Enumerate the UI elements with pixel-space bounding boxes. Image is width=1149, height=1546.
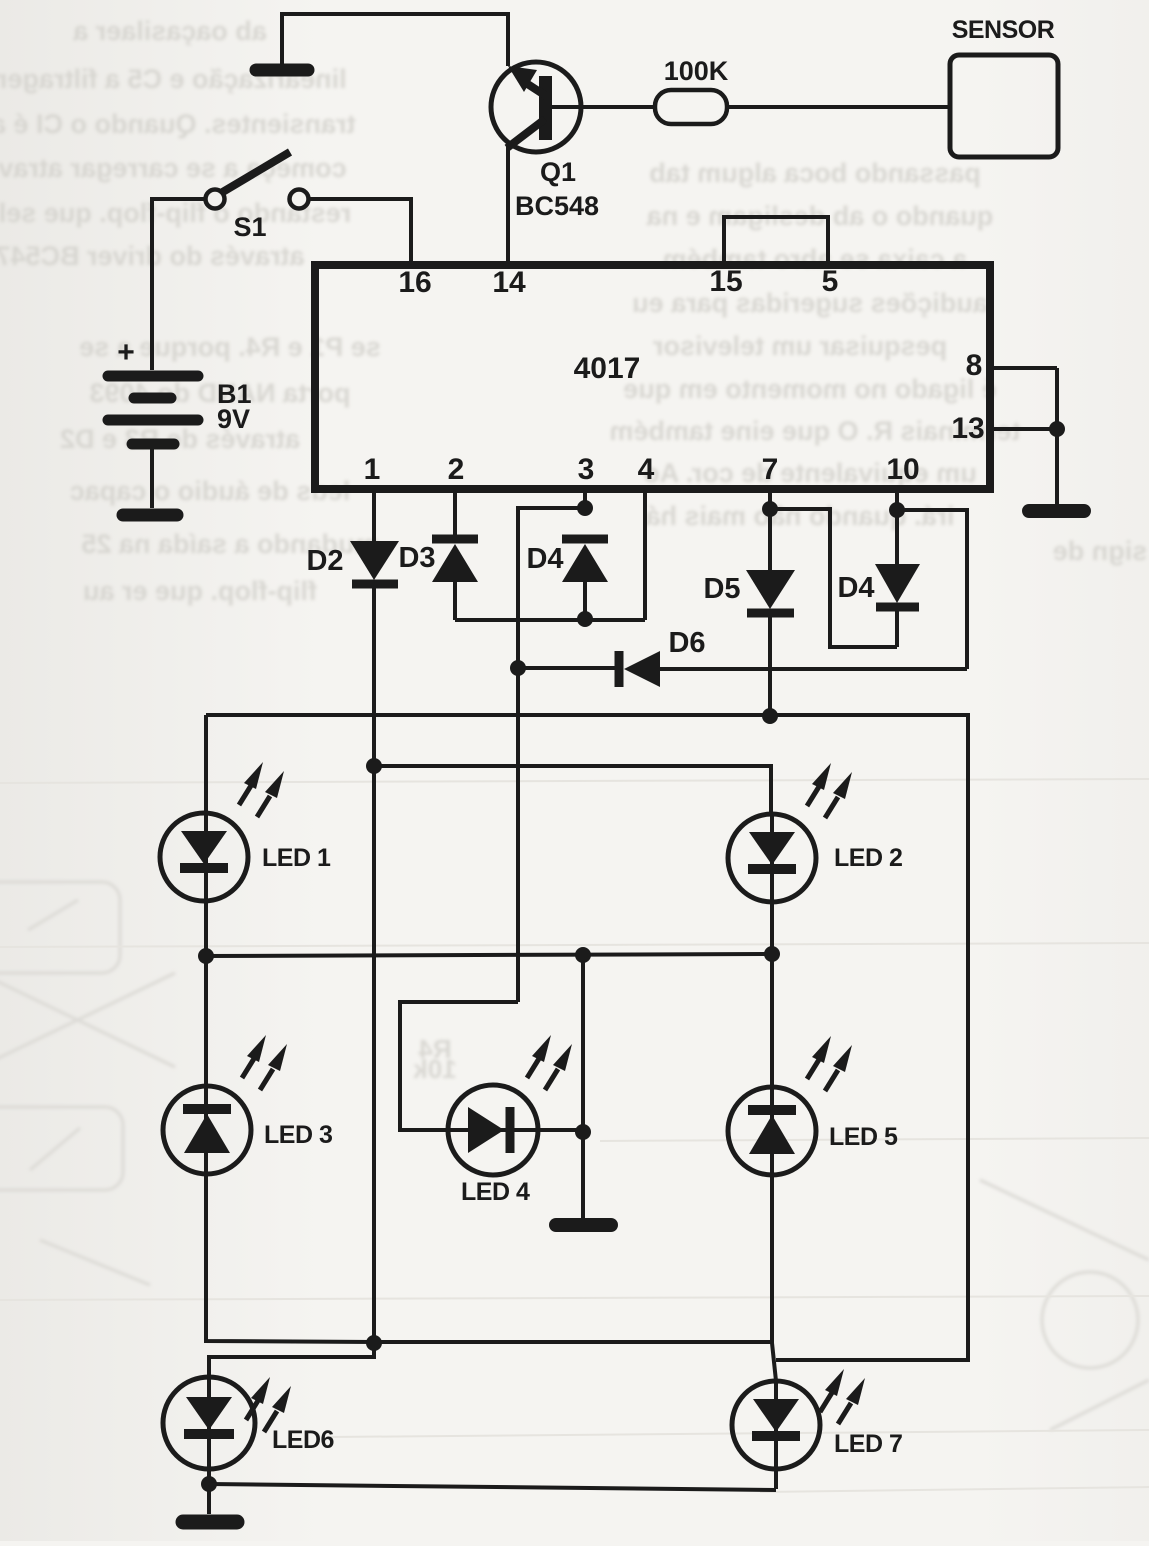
ground (pin 8/13) xyxy=(1029,504,1084,518)
svg-text:15: 15 xyxy=(709,265,742,298)
wire S1 to pin16 xyxy=(309,199,411,261)
pin 10 wire xyxy=(895,489,899,564)
svg-text:LED 7: LED 7 xyxy=(834,1430,902,1458)
wire LED1 bottom rail xyxy=(204,954,772,956)
svg-text:Q1: Q1 xyxy=(540,157,576,187)
svg-text:LED 2: LED 2 xyxy=(834,844,902,872)
LED6 xyxy=(163,1377,291,1469)
pin 2 wire xyxy=(453,489,457,539)
svg-text:D4: D4 xyxy=(526,543,563,575)
battery B1 xyxy=(108,376,198,444)
svg-text:LED6: LED6 xyxy=(272,1426,334,1454)
svg-text:leds de áudio o capac: leds de áudio o capac xyxy=(70,476,351,506)
LED5 xyxy=(728,1036,852,1175)
LED4 wires xyxy=(400,1002,518,1130)
svg-text:13: 13 xyxy=(951,412,984,445)
svg-text:flip-flop. que er au: flip-flop. que er au xyxy=(83,576,317,606)
svg-text:3: 3 xyxy=(578,453,595,486)
svg-text:S1: S1 xyxy=(233,212,266,242)
sensor box xyxy=(950,55,1058,157)
svg-text:é ligado no momento em que: é ligado no momento em que xyxy=(623,374,997,404)
svg-text:16: 16 xyxy=(398,266,431,299)
svg-text:LED 1: LED 1 xyxy=(262,844,331,872)
faint bleed-through drawing shapes xyxy=(0,882,1149,1430)
svg-text:transientes. Quando o CI é ab: transientes. Quando o CI é ab xyxy=(0,109,356,139)
diode D2 xyxy=(350,541,399,584)
node pin10 xyxy=(889,502,905,518)
wire D2 down to LED row xyxy=(372,584,376,1343)
svg-text:LED 3: LED 3 xyxy=(264,1121,332,1149)
node D2 LED2 xyxy=(366,758,382,774)
node pin3 xyxy=(577,500,593,516)
LED7 xyxy=(732,1369,865,1469)
svg-text:D3: D3 xyxy=(398,542,435,574)
wire rail D3 D4 pin4 xyxy=(455,618,645,622)
diode D5 xyxy=(746,570,795,613)
switch S1 xyxy=(206,152,309,209)
node D6 left xyxy=(510,660,526,676)
svg-text:5: 5 xyxy=(822,265,839,298)
svg-text:8: 8 xyxy=(966,349,983,382)
ground (top left) xyxy=(256,64,308,77)
svg-text:D5: D5 xyxy=(703,573,740,605)
diode D4 (second) xyxy=(875,564,920,607)
svg-text:9V: 9V xyxy=(217,404,250,434)
wire pin3 branch left xyxy=(518,508,585,1002)
svg-text:4017: 4017 xyxy=(574,352,641,385)
svg-text:D2: D2 xyxy=(306,545,343,577)
wire D3 to rail xyxy=(453,582,457,620)
pin 3 wire xyxy=(583,489,587,512)
svg-text:10k: 10k xyxy=(413,1054,457,1084)
svg-text:D4: D4 xyxy=(837,572,874,604)
wire D6 to right column xyxy=(660,667,967,671)
wire to ground right xyxy=(1055,368,1059,505)
node D4 bottom xyxy=(577,611,593,627)
wire top rail from ground to transistor emitter xyxy=(282,14,508,66)
wire LED4 node vertical xyxy=(581,955,585,1220)
svg-text:14: 14 xyxy=(492,266,526,299)
svg-text:LED 4: LED 4 xyxy=(461,1178,530,1206)
node D5 rail xyxy=(762,708,778,724)
svg-text:através de R3 e D2: através de R3 e D2 xyxy=(60,424,300,454)
diode D3 xyxy=(432,539,478,582)
pin 7 wire xyxy=(768,489,772,570)
svg-text:sign de: sign de xyxy=(1053,536,1148,566)
wire resistor to sensor xyxy=(727,105,950,109)
pin 1 wire xyxy=(372,489,376,541)
node LED1 bottom xyxy=(198,948,214,964)
svg-text:audições sugeridas para eu: audições sugeridas para eu xyxy=(632,288,988,318)
svg-text:BC548: BC548 xyxy=(515,191,599,221)
wire LED6 anode jog xyxy=(209,1343,374,1380)
svg-text:4: 4 xyxy=(638,453,655,486)
svg-text:LED 5: LED 5 xyxy=(829,1123,898,1151)
svg-text:7: 7 xyxy=(762,453,779,486)
jumper pin15 to pin5 xyxy=(724,217,828,261)
node rail LED4 xyxy=(575,947,591,963)
svg-text:começa a se carregar atravé: começa a se carregar atravé xyxy=(0,153,347,183)
wire D4 second down xyxy=(895,607,899,647)
wire collector to pin14 xyxy=(506,146,510,261)
pin 8 wire xyxy=(994,366,1057,370)
diode D6 xyxy=(518,651,660,687)
wire pin10 branch right xyxy=(897,510,967,669)
wire LED7 bottom xyxy=(774,1469,778,1489)
pin 13 wire xyxy=(994,427,1057,431)
wire base to resistor xyxy=(552,105,655,109)
svg-text:pesquisar um televisor: pesquisar um televisor xyxy=(652,331,947,361)
wire bottom cathode rail xyxy=(209,1484,776,1490)
svg-text:irá. quando não mais há: irá. quando não mais há xyxy=(644,501,954,531)
wire rail LED3 LED5 xyxy=(374,1340,772,1344)
node LED6 bottom xyxy=(201,1476,217,1492)
wire LED4 right to ground xyxy=(537,1128,583,1132)
node pin13 junction xyxy=(1049,421,1065,437)
svg-text:passando boca algum tab: passando boca algum tab xyxy=(649,158,981,188)
svg-text:+: + xyxy=(117,336,135,369)
LED1 xyxy=(160,762,284,901)
wire battery to ground xyxy=(150,449,154,508)
ghost bleed-through text layer xyxy=(0,16,1147,1084)
wire LED2 to LED5 to LED7 xyxy=(770,902,774,1343)
svg-text:1: 1 xyxy=(364,453,381,486)
wire S1 to battery xyxy=(152,199,205,370)
pin 4 wire xyxy=(643,489,647,620)
svg-text:um equivalente de cor. Ao: um equivalente de cor. Ao xyxy=(643,458,977,488)
wire LED6 to ground xyxy=(207,1467,211,1514)
IC 4017 xyxy=(315,265,990,489)
LED2 xyxy=(728,763,852,902)
LED3 xyxy=(163,1035,287,1174)
svg-text:ab oaçasilaer a: ab oaçasilaer a xyxy=(72,16,267,46)
node LED4 right xyxy=(575,1124,591,1140)
ground (LED6) xyxy=(183,1515,237,1530)
transistor Q1 xyxy=(491,62,581,152)
LED4 xyxy=(448,1035,572,1175)
svg-text:SENSOR: SENSOR xyxy=(952,16,1055,44)
node LED2 bottom xyxy=(764,946,780,962)
svg-text:restando o flip-flop. que sele: restando o flip-flop. que selec xyxy=(0,198,351,228)
wire D2 junction to LED2 xyxy=(374,766,771,813)
ground (LED4) xyxy=(556,1218,611,1232)
wire D5 down xyxy=(768,613,772,717)
wire rail anode top xyxy=(206,715,968,1360)
faint scan lines xyxy=(0,779,1149,1492)
svg-text:10: 10 xyxy=(886,453,919,486)
node LED6 top junction xyxy=(366,1335,382,1351)
node pin7 xyxy=(762,501,778,517)
ground (battery) xyxy=(123,509,177,522)
wire D4 to rail xyxy=(583,582,587,620)
resistor 100K xyxy=(655,90,727,124)
wire pin7 branch right xyxy=(770,509,897,647)
svg-text:100K: 100K xyxy=(664,56,729,86)
svg-text:D6: D6 xyxy=(668,627,705,659)
diode D4 (first) xyxy=(562,539,608,582)
wire LED1 LED3 column xyxy=(206,715,374,1342)
svg-text:2: 2 xyxy=(448,453,465,486)
